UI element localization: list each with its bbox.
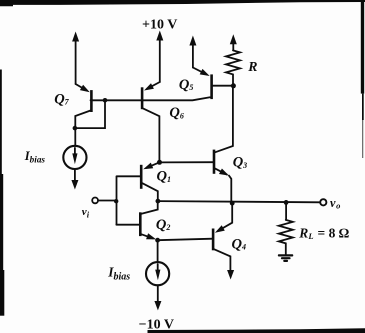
svg-text:RL= 8 Ω: RL= 8 Ω	[298, 225, 349, 240]
svg-text:+10 V: +10 V	[142, 18, 177, 33]
svg-text:R: R	[247, 59, 257, 74]
